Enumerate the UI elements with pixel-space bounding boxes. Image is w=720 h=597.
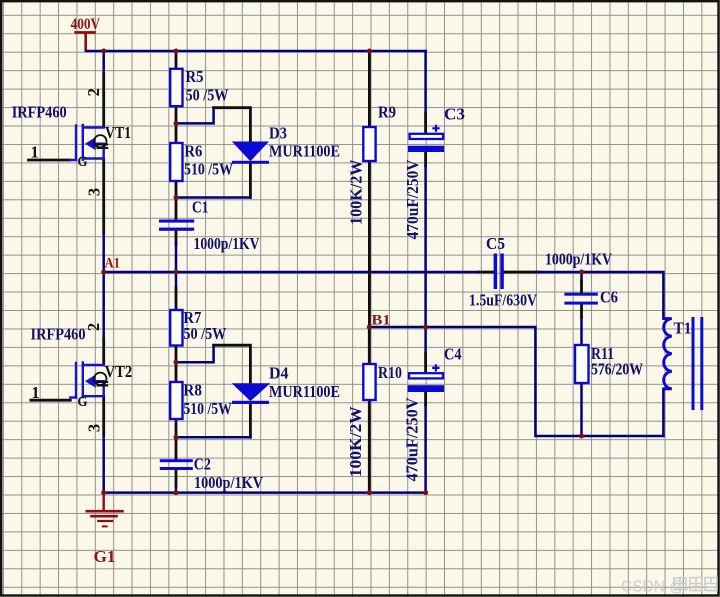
junction C4 / ground bus — [423, 490, 428, 495]
svg-text:G1: G1 — [94, 547, 116, 566]
svg-text:400V: 400V — [71, 16, 101, 33]
pin C6 top — [580, 281, 583, 293]
wire B1 bus to bottom rail — [369, 327, 663, 436]
junction R6/C1/D3 — [174, 195, 179, 200]
svg-text:C1: C1 — [192, 198, 209, 217]
resistor R7 — [170, 310, 182, 346]
capacitor C3 (electrolytic) — [410, 134, 444, 139]
plus sign C3 — [432, 125, 439, 132]
svg-text:3: 3 — [85, 188, 104, 196]
junction R8/C2/D4 — [174, 435, 179, 440]
wire VT1 source to node A1 — [102, 233, 105, 272]
svg-text:510 /5W: 510 /5W — [184, 160, 233, 179]
junction R10 / ground bus — [367, 490, 372, 495]
junction C2 / ground bus — [174, 490, 179, 495]
svg-text:510 /5W: 510 /5W — [183, 399, 232, 418]
wire D3 anode zigzag — [176, 108, 214, 124]
svg-text:VT1: VT1 — [105, 123, 131, 142]
pin R7 top — [175, 288, 178, 310]
wire C3 top drop — [424, 51, 427, 114]
svg-text:D3: D3 — [269, 124, 287, 143]
resistor R10 — [363, 364, 375, 400]
svg-text:C2: C2 — [194, 455, 211, 474]
plus sign C4 — [432, 364, 439, 371]
pin glyph D/S (VT1) — [94, 135, 108, 148]
wire C3 bottom to node B1 — [424, 166, 427, 327]
wire A1 bus to R7 — [175, 272, 178, 288]
svg-text:470uF/250V: 470uF/250V — [403, 159, 422, 239]
junction top bus / R5 — [174, 49, 179, 54]
svg-text:IRFP460: IRFP460 — [12, 103, 67, 122]
wire VT2 drain (upper) — [102, 272, 105, 339]
wire A1 bus right of C5 to T1 — [539, 272, 664, 319]
svg-text:C5: C5 — [486, 234, 505, 253]
resistor R6 — [170, 143, 182, 181]
wire D3 bottom return — [176, 196, 250, 199]
svg-text:G: G — [78, 394, 88, 410]
junction node A1 — [101, 270, 106, 275]
wire R10 bottom to ground bus — [368, 400, 371, 493]
svg-text:100K/2W: 100K/2W — [347, 159, 366, 225]
capacitor C1 — [159, 220, 194, 231]
wire R8 to C2 — [175, 419, 178, 459]
pin C3 bottom — [424, 152, 427, 166]
wire D3 cathode down — [249, 164, 252, 198]
svg-text:1.5uF/630V: 1.5uF/630V — [469, 291, 537, 310]
wire R6 to C1 — [175, 181, 178, 220]
wire VT1 drain (upper) — [102, 51, 105, 74]
wire C6 top — [580, 272, 583, 281]
svg-text:IRFP460: IRFP460 — [31, 325, 86, 344]
wire D4 anode zigzag — [176, 345, 214, 362]
capacitor C5 — [494, 254, 504, 290]
wire R11 bottom to rail — [580, 383, 583, 436]
pin C5 left — [479, 271, 494, 274]
pin VT1 source pin 3 — [102, 160, 105, 234]
svg-text:576/20W: 576/20W — [591, 360, 643, 379]
junction ground / G1 — [101, 490, 106, 495]
capacitor C2 — [160, 459, 193, 470]
svg-text:T1: T1 — [674, 319, 692, 338]
transistor VT1 (MOSFET) — [70, 125, 104, 160]
ground G1 — [86, 493, 124, 527]
wire C2 bottom to ground bus — [175, 486, 178, 493]
svg-text:VT2: VT2 — [105, 362, 133, 381]
power symbol 400V — [76, 32, 95, 50]
pin R10 top — [368, 327, 371, 364]
wire R9 bottom to node B1 — [368, 161, 371, 327]
junction C6 top / A1 bus — [579, 270, 584, 275]
diode D3 — [232, 142, 269, 164]
wire B1 to C4 top — [424, 327, 427, 354]
junction R11 / bottom rail — [579, 434, 584, 439]
svg-text:50 /5W: 50 /5W — [183, 324, 226, 343]
svg-text:R6: R6 — [184, 142, 202, 161]
svg-text:50 /5W: 50 /5W — [186, 85, 229, 104]
svg-text:100K/2W: 100K/2W — [346, 406, 365, 478]
pin C2 bottom — [175, 470, 178, 486]
junction top bus / VT1 drain — [101, 49, 106, 54]
diode D4 — [232, 384, 269, 404]
wire C6 to R11 — [580, 317, 583, 345]
wire VT2 source to ground bus — [102, 435, 105, 493]
pin VT2 drain pin 2 — [102, 339, 105, 365]
svg-text:CSDN @: CSDN @ — [621, 579, 685, 596]
transformer T1 core — [692, 317, 704, 410]
svg-text:C4: C4 — [444, 345, 462, 364]
svg-text:MUR1100E: MUR1100E — [269, 382, 340, 401]
transformer T1 primary winding — [663, 319, 671, 389]
pin C4 bottom — [424, 392, 427, 405]
pin VT1 gate pin 1 — [29, 159, 71, 162]
pin VT1 drain pin 2 — [102, 74, 105, 127]
svg-text:MUR1100E: MUR1100E — [269, 142, 340, 161]
junction R7/R8/D4 — [174, 360, 179, 365]
svg-text:3: 3 — [85, 424, 104, 432]
svg-text:1: 1 — [31, 383, 39, 402]
junction R5/R6/D3 — [174, 121, 179, 126]
pin C1 bottom — [175, 231, 178, 244]
wire C4 bottom to ground bus — [424, 405, 427, 493]
svg-text:470uF/250V: 470uF/250V — [403, 397, 422, 481]
resistor R5 — [170, 69, 182, 106]
wire T1 bottom lead — [662, 389, 665, 436]
capacitor C6 — [564, 293, 597, 305]
wire ground bus — [104, 491, 426, 494]
pin C3 top — [424, 114, 427, 133]
wire C1 bottom to A1 bus — [175, 244, 178, 272]
svg-text:G: G — [78, 154, 88, 170]
transistor VT2 (MOSFET) — [70, 363, 103, 398]
wire D3 top link — [214, 108, 251, 142]
svg-text:R10: R10 — [378, 363, 402, 382]
pin VT2 gate pin 1 — [31, 399, 70, 402]
watermark — [621, 577, 717, 596]
pin R9 top — [368, 51, 371, 127]
junction node B1 — [367, 325, 372, 330]
resistor R9 — [363, 127, 375, 161]
svg-text:A1: A1 — [105, 256, 121, 272]
svg-text:1000p/1KV: 1000p/1KV — [194, 473, 263, 492]
pin VT2 source pin 3 — [102, 396, 105, 435]
svg-text:1000p/1KV: 1000p/1KV — [194, 234, 260, 253]
junction C1/A1 bus — [174, 270, 179, 275]
svg-text:R9: R9 — [378, 103, 396, 122]
pin glyph D/S (VT2) — [94, 373, 108, 386]
junction C3/C4 at B1 — [423, 325, 428, 330]
svg-text:C3: C3 — [444, 105, 465, 124]
wire D4 top link — [214, 345, 251, 384]
pin C5 right — [504, 271, 539, 274]
wire R7 to R8 — [175, 345, 178, 382]
svg-text:2: 2 — [84, 323, 103, 331]
wire top bus — [86, 50, 426, 53]
capacitor C4 (electrolytic) — [409, 373, 443, 378]
svg-text:B1: B1 — [372, 313, 391, 329]
svg-text:R5: R5 — [186, 67, 204, 86]
resistor R8 — [170, 382, 182, 419]
junction top bus / R9 — [367, 49, 372, 54]
wire D4 cathode down — [249, 404, 252, 438]
svg-text:2: 2 — [84, 88, 103, 96]
resistor R11 — [575, 345, 589, 383]
wire A1 bus left of C5 — [104, 271, 479, 274]
pin R5 top — [175, 51, 178, 69]
svg-text:1000p/1KV: 1000p/1KV — [545, 250, 612, 269]
pin C6 bottom — [580, 305, 583, 317]
svg-text:R8: R8 — [183, 381, 202, 400]
wire D4 bottom return — [176, 436, 250, 439]
svg-text:D4: D4 — [269, 364, 289, 383]
wire R5 to R6 — [175, 104, 178, 143]
svg-text:1: 1 — [31, 143, 39, 162]
svg-text:C6: C6 — [600, 288, 618, 307]
pin C4 top — [424, 354, 427, 373]
